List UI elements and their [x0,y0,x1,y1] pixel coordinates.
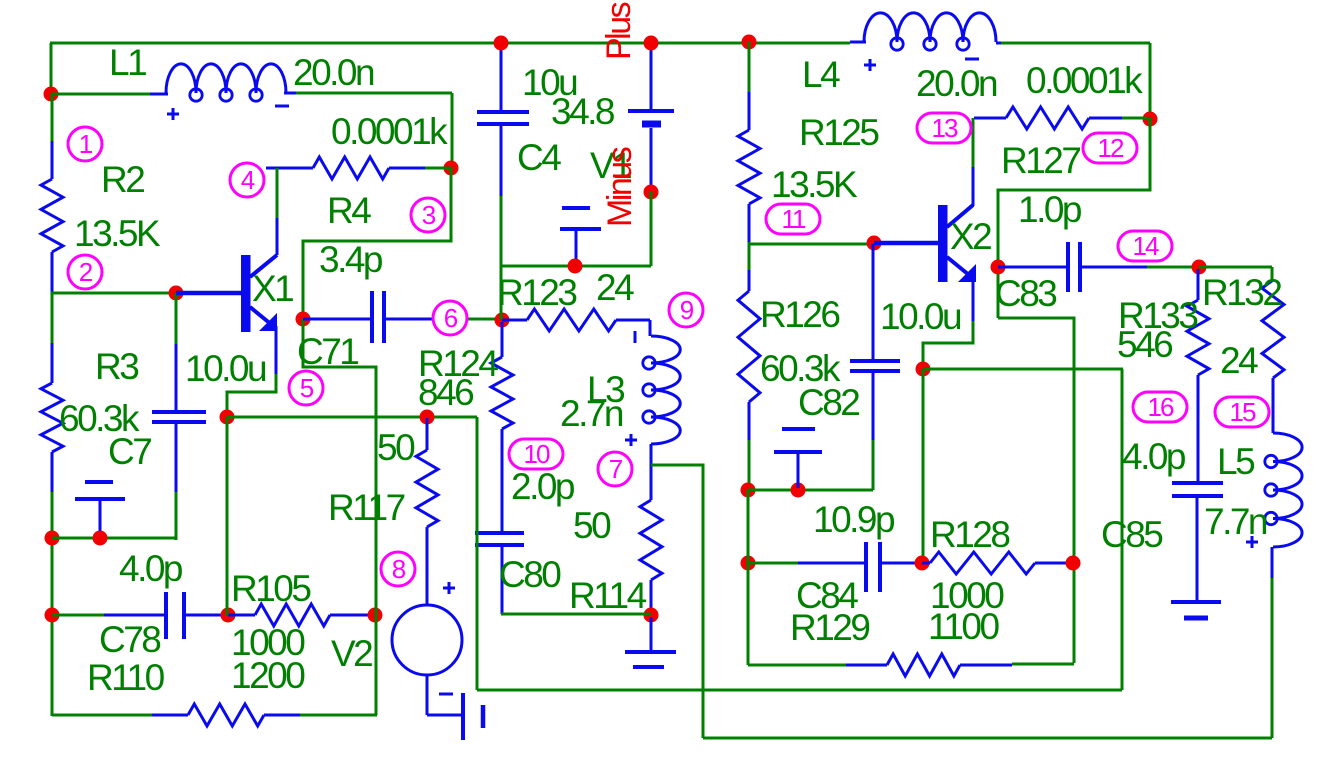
label C78 [99,619,160,660]
inductor L1 [150,64,296,101]
svg-text:C4: C4 [517,137,561,178]
wire right-of-V2 vertical [476,417,479,690]
svg-text:1.0p: 1.0p [1018,189,1082,230]
svg-text:L5: L5 [1217,441,1255,482]
svg-text:7.7n: 7.7n [1204,501,1267,542]
svg-text:R132: R132 [1202,272,1281,313]
svg-text:15: 15 [1230,397,1256,427]
wire L5 bottom [1271,578,1274,738]
L4 minus [965,58,979,61]
label 4.0p [1122,436,1186,477]
node 7 [598,452,632,486]
label 1200 [231,655,305,696]
L1 plus [167,108,179,120]
node S base junction X2 [867,236,882,251]
node AA junction [915,556,930,571]
svg-text:R110: R110 [87,657,165,698]
wire base row X2 [749,242,874,244]
svg-text:L1: L1 [109,42,146,83]
svg-text:2: 2 [79,257,93,287]
node K junction [495,313,510,328]
resistor R129 [846,654,1012,676]
node U cell junction [791,483,806,498]
svg-text:R127: R127 [1001,140,1080,181]
label R125 [799,112,879,153]
node D junction [45,531,60,546]
capacitor C84 [798,542,920,592]
svg-text:R117: R117 [328,487,405,528]
svg-text:R129: R129 [790,607,869,648]
L4 plus [864,59,876,71]
node L junction [644,608,659,623]
node 14 [1118,231,1172,261]
svg-text:R125: R125 [799,112,879,153]
node Y junction [1192,260,1207,275]
resistor R4 [266,157,451,179]
label 4.0p [119,548,183,589]
label C4 [517,137,561,178]
L5 plus [1246,536,1258,548]
svg-text:1200: 1200 [231,655,305,696]
label R127 [1001,140,1080,181]
capacitor C83 [998,242,1196,292]
wire collector X1 [276,168,279,255]
node 1 [68,127,102,161]
resistor R127 [974,107,1147,129]
node 3 [411,198,445,232]
svg-text:50: 50 [573,505,611,546]
wire y538 [52,537,176,540]
svg-text:20.0n: 20.0n [293,52,374,93]
label R2 [101,159,144,200]
label 50 [377,427,415,468]
label 546 [1117,324,1172,365]
svg-text:1: 1 [79,129,93,159]
wire left lower column [52,492,377,716]
resistor R110 [152,704,300,726]
resistor R117 [416,418,438,605]
label C80 [499,554,561,595]
battery cell near C82 [774,429,822,488]
node 12 [1083,133,1137,163]
svg-text:V2: V2 [331,633,372,674]
node Z junction [741,556,756,571]
battery cell near C7 [75,482,125,536]
node 13 [917,113,971,143]
capacitor C4 [477,43,529,320]
node F cell junction [93,531,108,546]
svg-text:0.0001k: 0.0001k [1026,60,1143,101]
wire emitter X2 [923,321,973,368]
svg-text:R128: R128 [930,514,1009,555]
battery V2 minus [427,675,483,740]
wire node12 net [998,119,1150,318]
label 2.7n [560,393,623,434]
label R133 [1118,295,1197,336]
svg-text:3.4p: 3.4p [319,239,383,280]
label 1000 [231,622,305,663]
svg-text:13.5K: 13.5K [74,213,161,254]
node 9 [669,293,703,327]
svg-text:24: 24 [596,267,634,308]
L3 minus [634,331,637,343]
label R114 [569,575,647,616]
wire L1 row [51,93,452,168]
wire emitter X1 [227,374,276,416]
label R4 [327,190,371,231]
voltage source V2 [392,605,462,675]
ground under R114 [625,617,676,667]
label 24 [596,267,634,308]
label L4 [802,54,840,95]
wire net3 [303,168,451,318]
node 16 [1133,392,1187,422]
label 10.9p [813,499,895,540]
battery cell V1 [560,208,601,264]
transistor X2 [874,205,976,321]
svg-text:13.5K: 13.5K [771,164,858,205]
battery V1 [628,43,674,192]
svg-text:C82: C82 [798,382,859,423]
svg-text:2.7n: 2.7n [560,393,623,434]
label 1100 [928,606,999,647]
node T junction [741,483,756,498]
label 1000 [930,575,1004,616]
node 2 [68,255,102,289]
wire R126 to box [747,490,750,665]
label R123 [497,272,576,313]
capacitor C78 [104,592,226,639]
wire y563 [748,562,798,565]
resistor R126 [738,244,760,490]
resistor R124 [491,322,513,531]
label C7 [108,431,151,472]
node J C71-left junction [296,312,311,327]
svg-text:12: 12 [1098,133,1124,163]
node A top-left junction [44,87,59,102]
svg-text:546: 546 [1117,324,1172,365]
node 8 [381,552,415,586]
label 3.4p [319,239,383,280]
svg-text:C83: C83 [995,273,1056,314]
wire R129 to vertical [1012,663,1074,666]
inductor L3 [643,336,680,500]
node 4 [230,163,264,197]
wire y490 [748,489,873,492]
resistor R133 [1187,269,1209,481]
label 10.0u [880,296,961,337]
label C84 [796,575,858,616]
svg-text:C71: C71 [297,331,358,372]
svg-text:R3: R3 [95,346,138,387]
label R117 [328,487,405,528]
node R junction [742,35,757,50]
node M junction [420,410,435,425]
svg-text:10.9p: 10.9p [813,499,895,540]
node X C83-left junction [991,260,1006,275]
node G junction [221,608,236,623]
svg-text:16: 16 [1148,392,1174,422]
node 5 [289,371,323,405]
node Q cell junction [568,259,583,274]
label C83 [995,273,1056,314]
svg-text:10: 10 [524,439,550,469]
label X2 [950,216,991,257]
wire node6 to junction [468,318,500,321]
svg-text:4.0p: 4.0p [1122,436,1186,477]
capacitor C71 [303,291,432,343]
svg-text:14: 14 [1133,231,1159,261]
node N junction [494,36,509,51]
label 13.5K [74,213,161,254]
capacitor C85 [1171,483,1223,618]
label Plus [600,2,638,60]
label 0.0001k [1026,60,1143,101]
svg-text:10.0u: 10.0u [880,296,961,337]
svg-text:7: 7 [609,454,623,484]
node 6 [433,301,467,335]
resistor R114 [640,500,662,613]
wire y417 [227,416,477,419]
svg-text:846: 846 [418,372,473,413]
label 10u [522,62,577,103]
svg-text:C78: C78 [99,619,160,660]
label C82 [798,382,859,423]
wire net3 lower [303,319,376,715]
label 60.3k [760,348,841,389]
label 34.8 [551,91,614,132]
svg-text:0.0001k: 0.0001k [331,111,448,152]
svg-text:8: 8 [392,554,406,584]
resistor R125 [738,42,760,242]
label 60.3k [59,398,140,439]
label 10.0u [185,348,266,389]
svg-text:4.0p: 4.0p [119,548,183,589]
label C85 [1101,514,1163,555]
label 50 [573,505,611,546]
wire y266 [501,265,651,268]
svg-text:20.0n: 20.0n [916,63,997,104]
node H junction [368,608,383,623]
label R110 [87,657,165,698]
label V2 [331,633,372,674]
label V1 [590,145,631,186]
svg-text:3: 3 [422,200,436,230]
label L3 [587,369,624,410]
svg-text:R114: R114 [569,575,647,616]
svg-text:34.8: 34.8 [551,91,614,132]
svg-text:Minus: Minus [601,147,639,227]
label Minus [601,147,639,227]
label X1 [252,268,293,309]
svg-text:L4: L4 [802,54,840,95]
node P junction [644,185,659,200]
svg-text:9: 9 [680,295,694,325]
svg-text:5: 5 [300,373,314,403]
svg-text:10.0u: 10.0u [185,348,266,389]
svg-text:R2: R2 [101,159,144,200]
svg-text:R4: R4 [327,190,371,231]
label R124 [418,343,498,384]
capacitor C82 [850,244,900,490]
wire y615 left [52,614,104,617]
label L5 [1217,441,1255,482]
wire y690 rail [477,369,1122,690]
svg-text:11: 11 [782,204,807,234]
label 24 [1220,340,1258,381]
wire top rail [50,43,850,94]
resistor R132 [1262,280,1284,433]
V2 plus [443,582,455,594]
svg-text:24: 24 [1220,340,1258,381]
resistor R123 [502,309,650,336]
wire emitter column [226,417,229,615]
label 20.0n [916,63,997,104]
node AB junction [1066,556,1081,571]
capacitor C7 [152,293,206,540]
transistor X1 [176,255,277,374]
label 0.0001k [331,111,448,152]
resistor R128 [922,552,1071,574]
label L1 [109,42,146,83]
wire box bottom [748,664,846,667]
node V junction [1143,112,1158,127]
svg-text:R123: R123 [497,272,576,313]
wire base row X1 [51,292,176,343]
wire y369 [923,369,1123,563]
inductor L5 [1265,433,1302,578]
resistor R105 [228,604,374,626]
svg-text:C80: C80 [499,554,561,595]
label R105 [231,568,311,609]
svg-text:1100: 1100 [928,606,999,647]
wire V1 to y266 [650,192,653,266]
capacitor C80 [475,533,524,614]
resistor R3 [41,343,63,492]
svg-text:R105: R105 [231,568,311,609]
wire L4 right [1001,43,1150,119]
label R3 [95,346,138,387]
label R128 [930,514,1009,555]
svg-text:C7: C7 [108,431,151,472]
svg-text:2.0p: 2.0p [511,466,575,507]
label 846 [418,372,473,413]
svg-text:50: 50 [377,427,415,468]
wire C83 bottom route [998,318,1074,663]
label R129 [790,607,869,648]
label 13.5K [771,164,858,205]
node O junction [644,36,659,51]
label C71 [297,331,358,372]
resistor R2 [41,94,63,292]
node E junction [45,608,60,623]
label 7.7n [1204,501,1267,542]
label 1.0p [1018,189,1082,230]
node W emitter junction [916,362,931,377]
wire C80 to R114 [501,613,651,616]
svg-text:R126: R126 [760,294,839,335]
svg-text:Plus: Plus [600,2,638,60]
node 10 [509,439,563,469]
node C base junction X1 [169,286,184,301]
label 20.0n [293,52,374,93]
wire bottom rail [703,737,1272,740]
node I emitter junction [220,410,235,425]
svg-text:X2: X2 [950,216,991,257]
wire R132 top [1199,267,1272,280]
svg-text:C85: C85 [1101,514,1163,555]
inductor L4 [850,13,1004,50]
svg-text:6: 6 [444,303,458,333]
node 11 [766,204,820,234]
label 2.0p [511,466,575,507]
wire L3 tap [651,465,703,738]
label R132 [1202,272,1281,313]
L1 minus [275,105,289,108]
node B R4-right junction [444,161,459,176]
svg-text:13: 13 [932,113,958,143]
wire collector X2 [972,118,975,206]
svg-text:X1: X1 [252,268,293,309]
node 15 [1215,397,1269,427]
label R126 [760,294,839,335]
svg-text:4: 4 [241,165,255,195]
L3 plus [625,434,637,446]
